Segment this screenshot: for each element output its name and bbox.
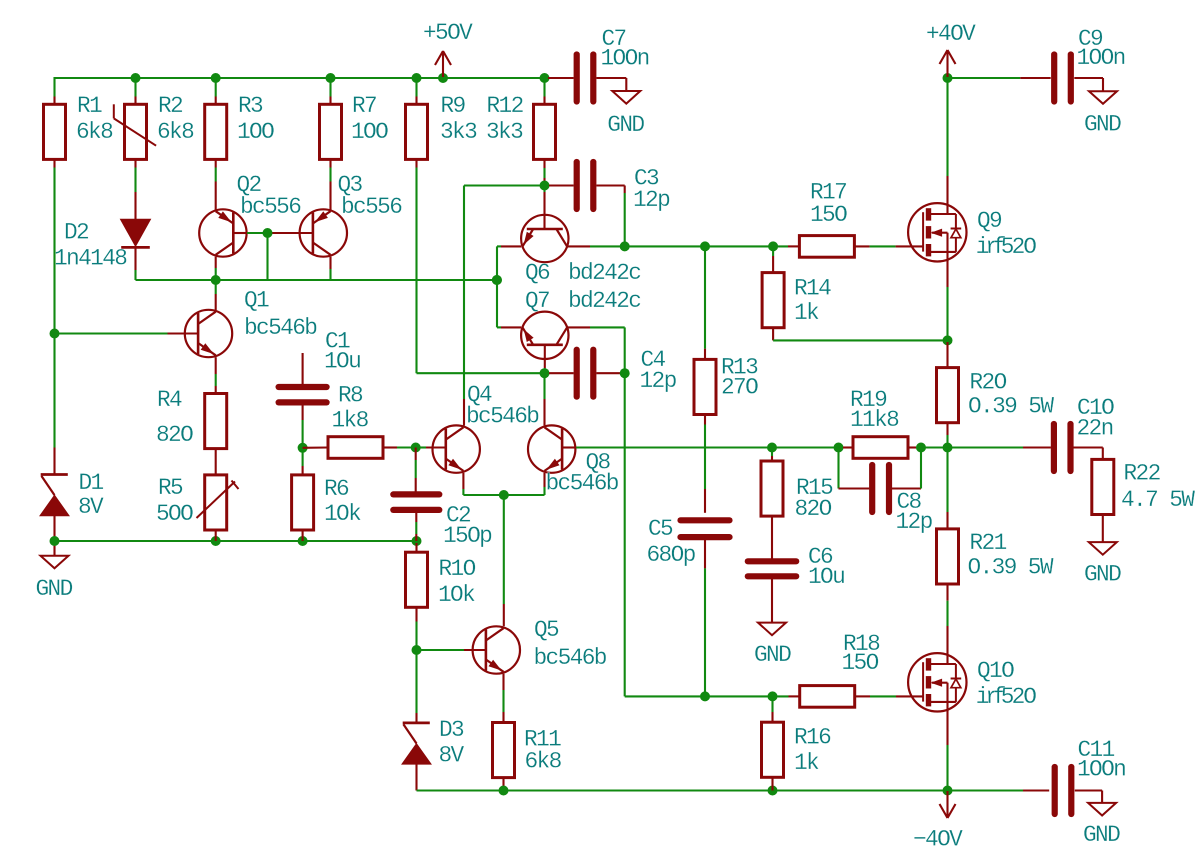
svg-text:R3: R3 <box>238 93 263 119</box>
svg-text:GND: GND <box>36 576 73 602</box>
svg-text:Q1: Q1 <box>244 288 269 314</box>
svg-text:bc546b: bc546b <box>546 471 619 497</box>
svg-text:R16: R16 <box>794 725 831 751</box>
svg-text:Q7: Q7 <box>525 288 549 314</box>
svg-text:D1: D1 <box>79 470 104 496</box>
svg-text:82O: 82O <box>156 422 193 448</box>
svg-text:−4OV: −4OV <box>913 827 963 850</box>
svg-text:1OO: 1OO <box>237 119 274 145</box>
svg-text:R2O: R2O <box>970 370 1007 396</box>
svg-text:R21: R21 <box>970 530 1007 556</box>
svg-text:68Op: 68Op <box>647 542 696 568</box>
svg-text:1OOn: 1OOn <box>1077 45 1125 71</box>
svg-text:bc556: bc556 <box>240 194 301 220</box>
svg-text:1k: 1k <box>794 750 819 776</box>
svg-text:bc546b: bc546b <box>244 315 317 341</box>
svg-text:bd242c: bd242c <box>568 288 641 314</box>
svg-text:22n: 22n <box>1077 416 1113 442</box>
svg-text:12p: 12p <box>640 368 677 394</box>
svg-text:8V: 8V <box>78 494 104 520</box>
svg-text:Q1O: Q1O <box>977 658 1014 684</box>
svg-text:GND: GND <box>754 642 791 668</box>
svg-text:R12: R12 <box>487 93 524 119</box>
svg-text:R4: R4 <box>157 387 182 413</box>
svg-text:5OO: 5OO <box>156 501 193 527</box>
svg-text:R1: R1 <box>77 93 102 119</box>
svg-text:15Op: 15Op <box>443 523 492 549</box>
svg-text:1Ok: 1Ok <box>324 501 361 527</box>
svg-text:Q5: Q5 <box>534 617 559 643</box>
svg-text:R7: R7 <box>352 93 376 119</box>
svg-text:4.7 5W: 4.7 5W <box>1121 487 1195 513</box>
svg-text:27O: 27O <box>721 375 758 401</box>
svg-text:R22: R22 <box>1124 461 1161 487</box>
svg-text:Q9: Q9 <box>977 208 1002 234</box>
svg-text:irf52O: irf52O <box>976 684 1037 710</box>
svg-text:bd242c: bd242c <box>568 260 641 286</box>
svg-text:GND: GND <box>1084 562 1121 588</box>
svg-text:1Ou: 1Ou <box>808 564 844 590</box>
svg-text:bc546b: bc546b <box>534 645 607 671</box>
svg-text:1OO: 1OO <box>351 119 388 145</box>
svg-text:D3: D3 <box>439 717 464 743</box>
svg-text:15O: 15O <box>842 650 879 676</box>
svg-text:D2: D2 <box>64 220 89 246</box>
svg-text:bc546b: bc546b <box>466 404 539 430</box>
svg-text:1n4148: 1n4148 <box>54 246 127 272</box>
svg-text:82O: 82O <box>795 496 832 522</box>
svg-text:C5: C5 <box>648 516 673 542</box>
svg-text:+4OV: +4OV <box>926 21 976 47</box>
svg-text:6k8: 6k8 <box>525 749 562 775</box>
svg-text:1OOn: 1OOn <box>1077 757 1125 783</box>
svg-text:bc556: bc556 <box>341 194 402 220</box>
svg-text:R9: R9 <box>441 93 466 119</box>
svg-text:GND: GND <box>1084 112 1121 138</box>
svg-text:R6: R6 <box>324 476 349 502</box>
svg-text:GND: GND <box>607 112 644 138</box>
svg-text:O.39 5W: O.39 5W <box>968 555 1054 581</box>
svg-text:1Ok: 1Ok <box>438 582 475 608</box>
svg-text:1k: 1k <box>794 300 819 326</box>
svg-text:6k8: 6k8 <box>76 119 113 145</box>
svg-text:3k3: 3k3 <box>486 119 523 145</box>
svg-text:11k8: 11k8 <box>850 407 899 433</box>
svg-text:irf52O: irf52O <box>976 234 1037 260</box>
svg-text:1OOn: 1OOn <box>601 46 649 72</box>
svg-text:GND: GND <box>1083 822 1120 848</box>
svg-text:1Ou: 1Ou <box>324 349 360 375</box>
svg-text:12p: 12p <box>633 187 670 213</box>
svg-text:R2: R2 <box>158 93 183 119</box>
svg-text:R5: R5 <box>158 475 183 501</box>
svg-text:+5OV: +5OV <box>423 20 473 46</box>
svg-text:O.39 5W: O.39 5W <box>968 394 1054 420</box>
svg-text:R14: R14 <box>794 276 831 302</box>
svg-text:R1O: R1O <box>439 556 476 582</box>
svg-text:1k8: 1k8 <box>332 408 369 434</box>
svg-text:15O: 15O <box>810 202 847 228</box>
svg-text:3k3: 3k3 <box>440 119 477 145</box>
svg-text:Q6: Q6 <box>525 260 550 286</box>
svg-text:R8: R8 <box>338 383 363 409</box>
svg-text:12p: 12p <box>896 509 933 535</box>
svg-text:8V: 8V <box>439 743 465 769</box>
svg-text:6k8: 6k8 <box>157 119 194 145</box>
